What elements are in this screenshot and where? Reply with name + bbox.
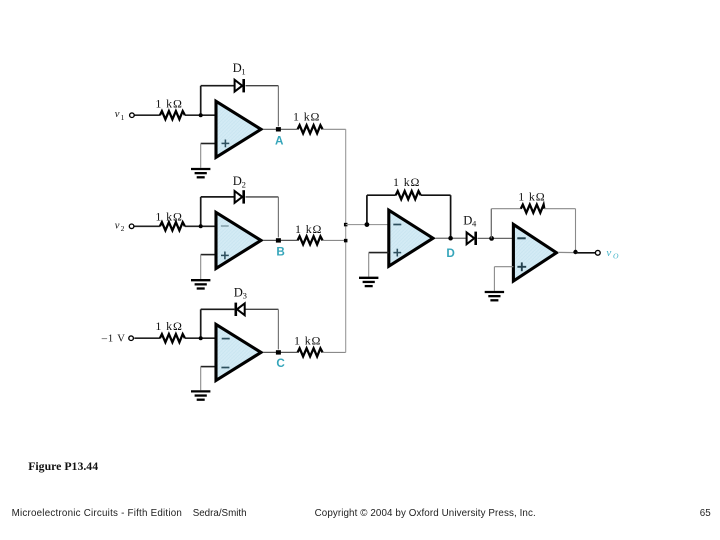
svg-text:v: v [606,247,611,259]
svg-text:v: v [115,220,120,231]
svg-text:D: D [234,285,243,299]
svg-text:1 kΩ: 1 kΩ [155,210,182,224]
svg-text:65: 65 [700,508,711,519]
svg-text:Sedra/Smith: Sedra/Smith [193,508,247,519]
svg-text:Figure P13.44: Figure P13.44 [28,459,98,473]
svg-text:1 kΩ: 1 kΩ [518,189,545,203]
svg-text:–1 V: –1 V [101,334,126,345]
svg-text:D: D [446,247,454,260]
svg-text:1 kΩ: 1 kΩ [155,319,182,333]
svg-text:O: O [613,251,619,260]
svg-text:Microelectronic Circuits - Fif: Microelectronic Circuits - Fifth Edition [12,508,183,519]
svg-text:1 kΩ: 1 kΩ [155,97,182,111]
svg-text:1: 1 [241,66,245,76]
svg-text:D: D [463,213,472,227]
svg-text:3: 3 [243,291,247,301]
svg-text:C: C [276,357,285,370]
svg-text:4: 4 [472,219,477,229]
svg-text:2: 2 [121,224,125,233]
svg-text:B: B [276,246,284,259]
svg-text:D: D [233,61,242,75]
svg-text:D: D [233,174,242,188]
svg-text:2: 2 [242,179,246,189]
svg-text:A: A [275,135,284,148]
svg-text:1 kΩ: 1 kΩ [294,334,321,348]
svg-text:1 kΩ: 1 kΩ [295,222,322,236]
svg-text:v: v [115,109,120,120]
svg-text:1 kΩ: 1 kΩ [393,175,420,189]
svg-text:1 kΩ: 1 kΩ [293,110,320,124]
svg-text:1: 1 [121,113,125,122]
svg-text:Copyright © 2004 by Oxford Uni: Copyright © 2004 by Oxford University Pr… [315,508,536,519]
